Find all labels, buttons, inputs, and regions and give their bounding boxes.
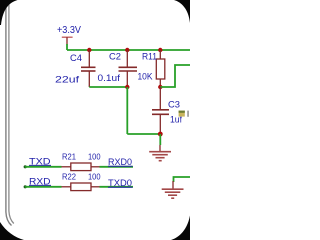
wire C3 node down (159, 134, 161, 145)
capacitor C4 (81, 50, 96, 87)
svg-text:RXD0: RXD0 (108, 157, 132, 167)
wire right edge to GND2 (174, 177, 191, 182)
svg-text:TXD0: TXD0 (108, 178, 132, 188)
capacitor C3 (152, 87, 169, 134)
svg-text:+3.3V: +3.3V (57, 25, 81, 36)
wire R22 to TXD0 (100, 186, 134, 188)
svg-text:22uf: 22uf (55, 75, 80, 85)
node C3 bottom junction (158, 132, 163, 137)
wire R21 to RXD0 (100, 166, 134, 168)
svg-text:C3: C3 (168, 99, 180, 109)
node C4 top junction (87, 48, 91, 52)
svg-text:C4: C4 (70, 53, 82, 63)
svg-text:10K: 10K (138, 71, 153, 81)
photo corner masks (decorative) (0, 0, 18, 25)
ground GND1 (149, 145, 171, 161)
wire power stem (66, 44, 68, 50)
pin dot RXD (24, 185, 27, 188)
wire +3.3V bus (67, 49, 190, 51)
svg-text:100: 100 (88, 151, 101, 161)
resistor R22 (62, 183, 100, 191)
wire C4 to C2 bottom (89, 86, 127, 88)
node C2 top junction (125, 48, 129, 52)
wire R11 bottom to right edge (160, 65, 190, 87)
marker gray tick (187, 111, 189, 117)
ground GND2 (162, 181, 184, 198)
svg-text:C2: C2 (109, 51, 121, 61)
wire bottom bus to C3 node (127, 133, 160, 135)
wire RXD to R22 (25, 186, 61, 188)
power symbol +3.3V bar (62, 37, 73, 44)
wire TXD to R21 (25, 166, 61, 168)
capacitor C2 (119, 50, 138, 87)
node R11 bottom junction (158, 85, 162, 89)
node R11 top junction (158, 48, 162, 52)
resistor R21 (62, 163, 100, 171)
resistor R11 (156, 50, 165, 87)
svg-text:R11: R11 (142, 51, 157, 61)
wire C2 bottom down (126, 87, 128, 134)
sheet border double line (frame, decorative) (6, 4, 12, 226)
svg-text:0.1uf: 0.1uf (98, 73, 121, 83)
svg-text:R22: R22 (62, 171, 76, 181)
node C2 bottom junction (125, 85, 129, 89)
marker yellow square (179, 111, 185, 117)
svg-text:R21: R21 (62, 151, 76, 161)
svg-text:100: 100 (88, 171, 101, 181)
pin dot TXD (24, 165, 27, 168)
